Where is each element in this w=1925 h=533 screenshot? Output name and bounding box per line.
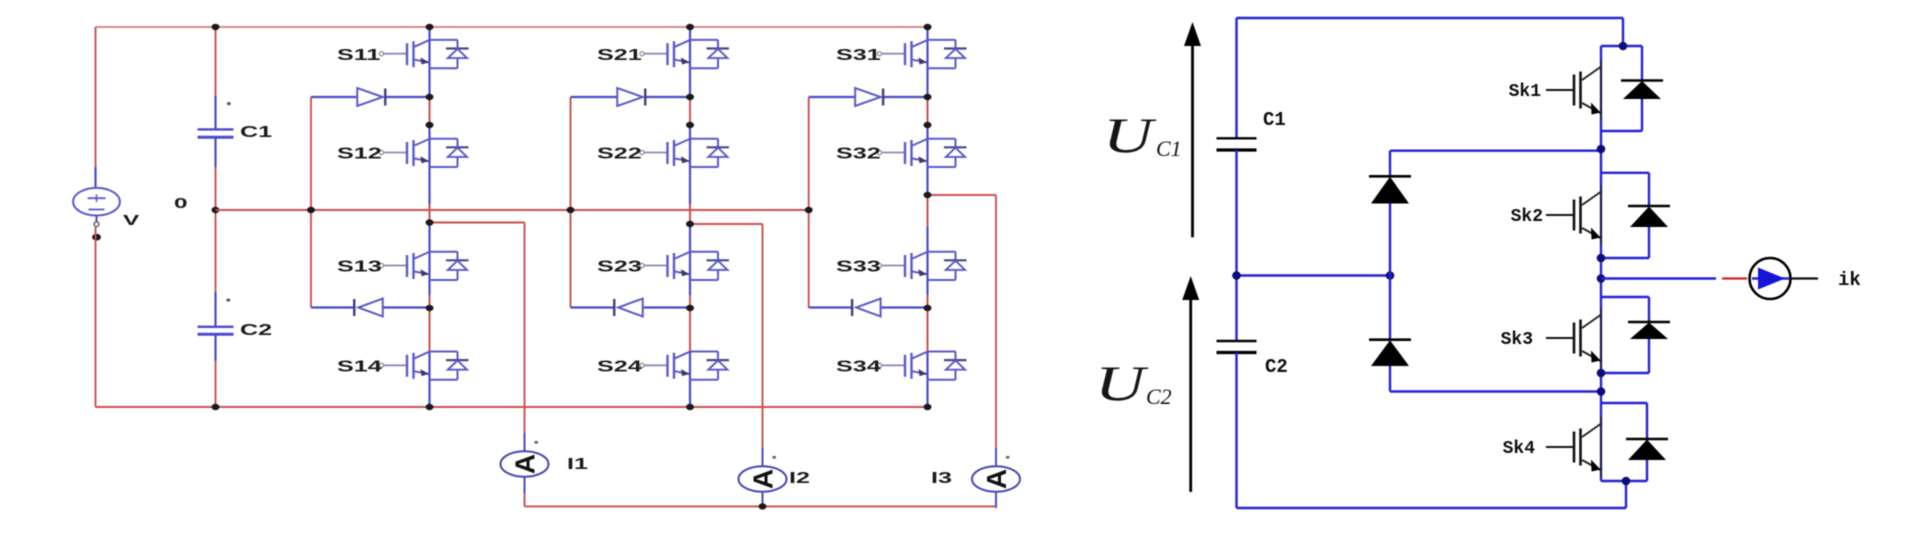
leg 3 main wire segments [926, 27, 928, 40]
capacitor C1 [214, 96, 216, 130]
wire below ammeter I1 [524, 477, 526, 494]
wire below ammeter I3 [995, 492, 997, 509]
svg-text:Sk1: Sk1 [1509, 82, 1542, 102]
junction phase tap leg 2 [686, 221, 694, 227]
wire collector-diode branch [1601, 402, 1647, 404]
wire below ammeter I2 [762, 492, 764, 509]
clamp diode upper leg 2 [571, 96, 618, 98]
svg-text:U: U [1103, 108, 1157, 164]
wire collector-diode branch [1601, 172, 1649, 174]
wire to ammeter I2 [762, 224, 764, 448]
junction clamp top main [1597, 145, 1606, 154]
clamp diode lower right [1369, 338, 1411, 341]
polarity mark C2 [227, 299, 231, 302]
junction clamp bottom leg 2 [686, 305, 694, 311]
junction Sk3 emitter [1597, 369, 1606, 378]
leg 2 main wire segments [689, 27, 691, 40]
transistor S22 [640, 139, 729, 167]
svg-text:I3: I3 [931, 470, 952, 487]
transistor Sk1 [1546, 60, 1601, 120]
svg-text:C1: C1 [1156, 136, 1182, 161]
capacitor C2 right [1217, 340, 1257, 342]
junction Sk2 emitter [1597, 254, 1606, 263]
svg-text:A: A [981, 469, 1012, 489]
transistor S31 [877, 40, 966, 68]
svg-text:S31: S31 [836, 47, 881, 64]
junction leg 3 bottom rail [924, 404, 932, 410]
transistor S21 [640, 40, 729, 68]
junction below source [92, 234, 101, 241]
svg-text:S21: S21 [597, 47, 642, 64]
junction clamp bottom main [1597, 387, 1606, 396]
svg-text:S11: S11 [337, 47, 381, 64]
svg-text:S22: S22 [597, 145, 642, 162]
wire left rail lower [95, 227, 97, 407]
wire ammeter common return [525, 505, 997, 507]
svg-text:Sk4: Sk4 [1503, 439, 1536, 459]
transistor S13 [379, 252, 468, 280]
wire to ammeter I3 [995, 195, 997, 448]
junction neutral left [1232, 271, 1241, 280]
current source ik [1750, 258, 1791, 299]
wire cap branch bottom [215, 361, 217, 407]
svg-text:I2: I2 [789, 470, 810, 487]
junction phase tap leg 1 [426, 219, 434, 225]
junction clamp top leg 2 [686, 94, 694, 100]
ammeter I2 [739, 466, 787, 492]
ammeter I1 [501, 451, 549, 477]
diode antiparallel of Sk1 [1621, 79, 1663, 82]
svg-text:S34: S34 [836, 358, 881, 375]
svg-text:S23: S23 [597, 258, 642, 275]
junction leg 3 top rail [924, 24, 932, 30]
transistor S23 [640, 252, 729, 280]
junction leg 2 top rail [686, 24, 694, 30]
ammeter I3 [972, 466, 1020, 492]
svg-text:C1: C1 [240, 124, 273, 141]
junction neutral clamp [1386, 271, 1395, 280]
junction clamp bottom leg 1 [426, 305, 434, 311]
clamp diode upper leg 3 [809, 96, 855, 98]
junction return I2 [759, 503, 767, 509]
svg-text:ik: ik [1838, 269, 1861, 291]
junction cap branch top rail [212, 24, 220, 30]
voltage source V [94, 167, 96, 189]
wire clamp bottom link [1390, 390, 1601, 392]
svg-text:Sk2: Sk2 [1511, 207, 1543, 227]
wire output ik [1601, 277, 1716, 279]
wire collector-diode branch [1601, 296, 1649, 298]
wire clamp vertical right [1389, 151, 1391, 177]
svg-text:S13: S13 [337, 258, 382, 275]
arrow U_C2 [1189, 294, 1192, 492]
wire right left rail [1235, 18, 1237, 138]
junction below clamp top leg 2 [686, 122, 694, 128]
wire emitter-diode branch [1648, 227, 1650, 258]
transistor S33 [877, 252, 966, 280]
junction clamp bottom leg 3 [924, 305, 932, 311]
wire neutral to clamp [1237, 274, 1391, 276]
wire neutral node 0 [216, 209, 809, 211]
svg-text:C2: C2 [1265, 356, 1288, 378]
junction output node [1597, 274, 1606, 283]
wire cap branch middle [215, 167, 217, 292]
diode antiparallel of Sk2 [1628, 205, 1670, 208]
junction cap branch bottom rail [212, 404, 220, 410]
svg-text:A: A [510, 454, 541, 474]
svg-text:C2: C2 [1146, 384, 1172, 409]
wire clamp top link [1390, 149, 1601, 151]
transistor S24 [640, 352, 729, 380]
wire phase tap leg 2 [690, 223, 763, 225]
wire collector-diode branch [1601, 45, 1642, 47]
wire emitter-diode branch [1648, 339, 1650, 373]
polarity mark C1 [227, 102, 231, 105]
svg-text:C2: C2 [240, 322, 272, 339]
junction clamp neutral leg 3 [805, 207, 813, 213]
transistor S11 [379, 40, 468, 68]
junction below clamp top leg 3 [924, 122, 932, 128]
clamp diode upper right [1369, 175, 1411, 178]
svg-text:V: V [123, 212, 140, 228]
clamp diode lower leg 1 [311, 306, 354, 308]
node 0 junction [212, 207, 220, 213]
wire phase tap leg 3 [928, 194, 997, 196]
junction below clamp top leg 1 [426, 122, 434, 128]
transistor S12 [379, 139, 468, 167]
wire clamp branch leg 1 [310, 97, 312, 308]
wire clamp branch leg 3 [808, 97, 810, 308]
transistor Sk2 [1546, 185, 1601, 245]
junction leg 2 bottom rail [686, 404, 694, 410]
junction clamp neutral leg 1 [307, 207, 315, 213]
wire to ammeter I1 [524, 223, 526, 434]
transistor Sk4 [1546, 417, 1601, 477]
svg-text:Sk3: Sk3 [1501, 330, 1533, 350]
clamp diode lower leg 2 [571, 306, 615, 308]
capacitor C2 [214, 292, 216, 327]
wire phase tap leg 1 [430, 222, 525, 224]
svg-text:S12: S12 [337, 145, 382, 162]
transistor S32 [877, 139, 966, 167]
svg-text:I1: I1 [567, 456, 588, 473]
clamp diode lower leg 3 [809, 306, 852, 308]
svg-text:S24: S24 [597, 358, 642, 375]
capacitor C1 right [1217, 137, 1257, 139]
transistor S34 [877, 352, 966, 380]
wire right bottom rail [1237, 507, 1627, 509]
transistor S14 [379, 352, 468, 380]
junction Sk4 bottom [1622, 477, 1631, 486]
transistor Sk3 [1546, 308, 1601, 368]
leg 1 main wire segments [428, 27, 430, 40]
svg-text:S14: S14 [337, 358, 382, 375]
clamp diode upper leg 1 [311, 96, 357, 98]
svg-text:S33: S33 [836, 258, 881, 275]
wire bottom DC rail [96, 406, 928, 408]
wire right main vertical segments [1600, 46, 1602, 60]
wire cap branch top [215, 27, 217, 96]
wire emitter-diode branch [1646, 460, 1648, 481]
svg-text:U: U [1095, 356, 1149, 412]
junction Sk1 top [1619, 42, 1628, 51]
svg-text:C1: C1 [1263, 109, 1286, 131]
wire clamp branch leg 2 [570, 97, 572, 308]
wire top DC rail [96, 26, 928, 28]
svg-text:0: 0 [174, 195, 188, 211]
arrow U_C1 [1191, 40, 1194, 237]
wire emitter-diode branch [1641, 99, 1643, 131]
diode antiparallel of Sk3 [1628, 321, 1670, 324]
junction clamp neutral leg 2 [567, 207, 575, 213]
wire left rail upper [95, 27, 97, 167]
svg-text:S32: S32 [836, 145, 881, 162]
junction phase tap leg 3 [924, 192, 932, 198]
wire right top rail [1237, 17, 1624, 19]
diode antiparallel of Sk4 [1626, 438, 1668, 441]
junction clamp top leg 3 [924, 94, 932, 100]
junction leg 1 bottom rail [426, 404, 434, 410]
svg-text:A: A [748, 469, 779, 489]
junction clamp top leg 1 [426, 94, 434, 100]
junction leg 1 top rail [426, 24, 434, 30]
